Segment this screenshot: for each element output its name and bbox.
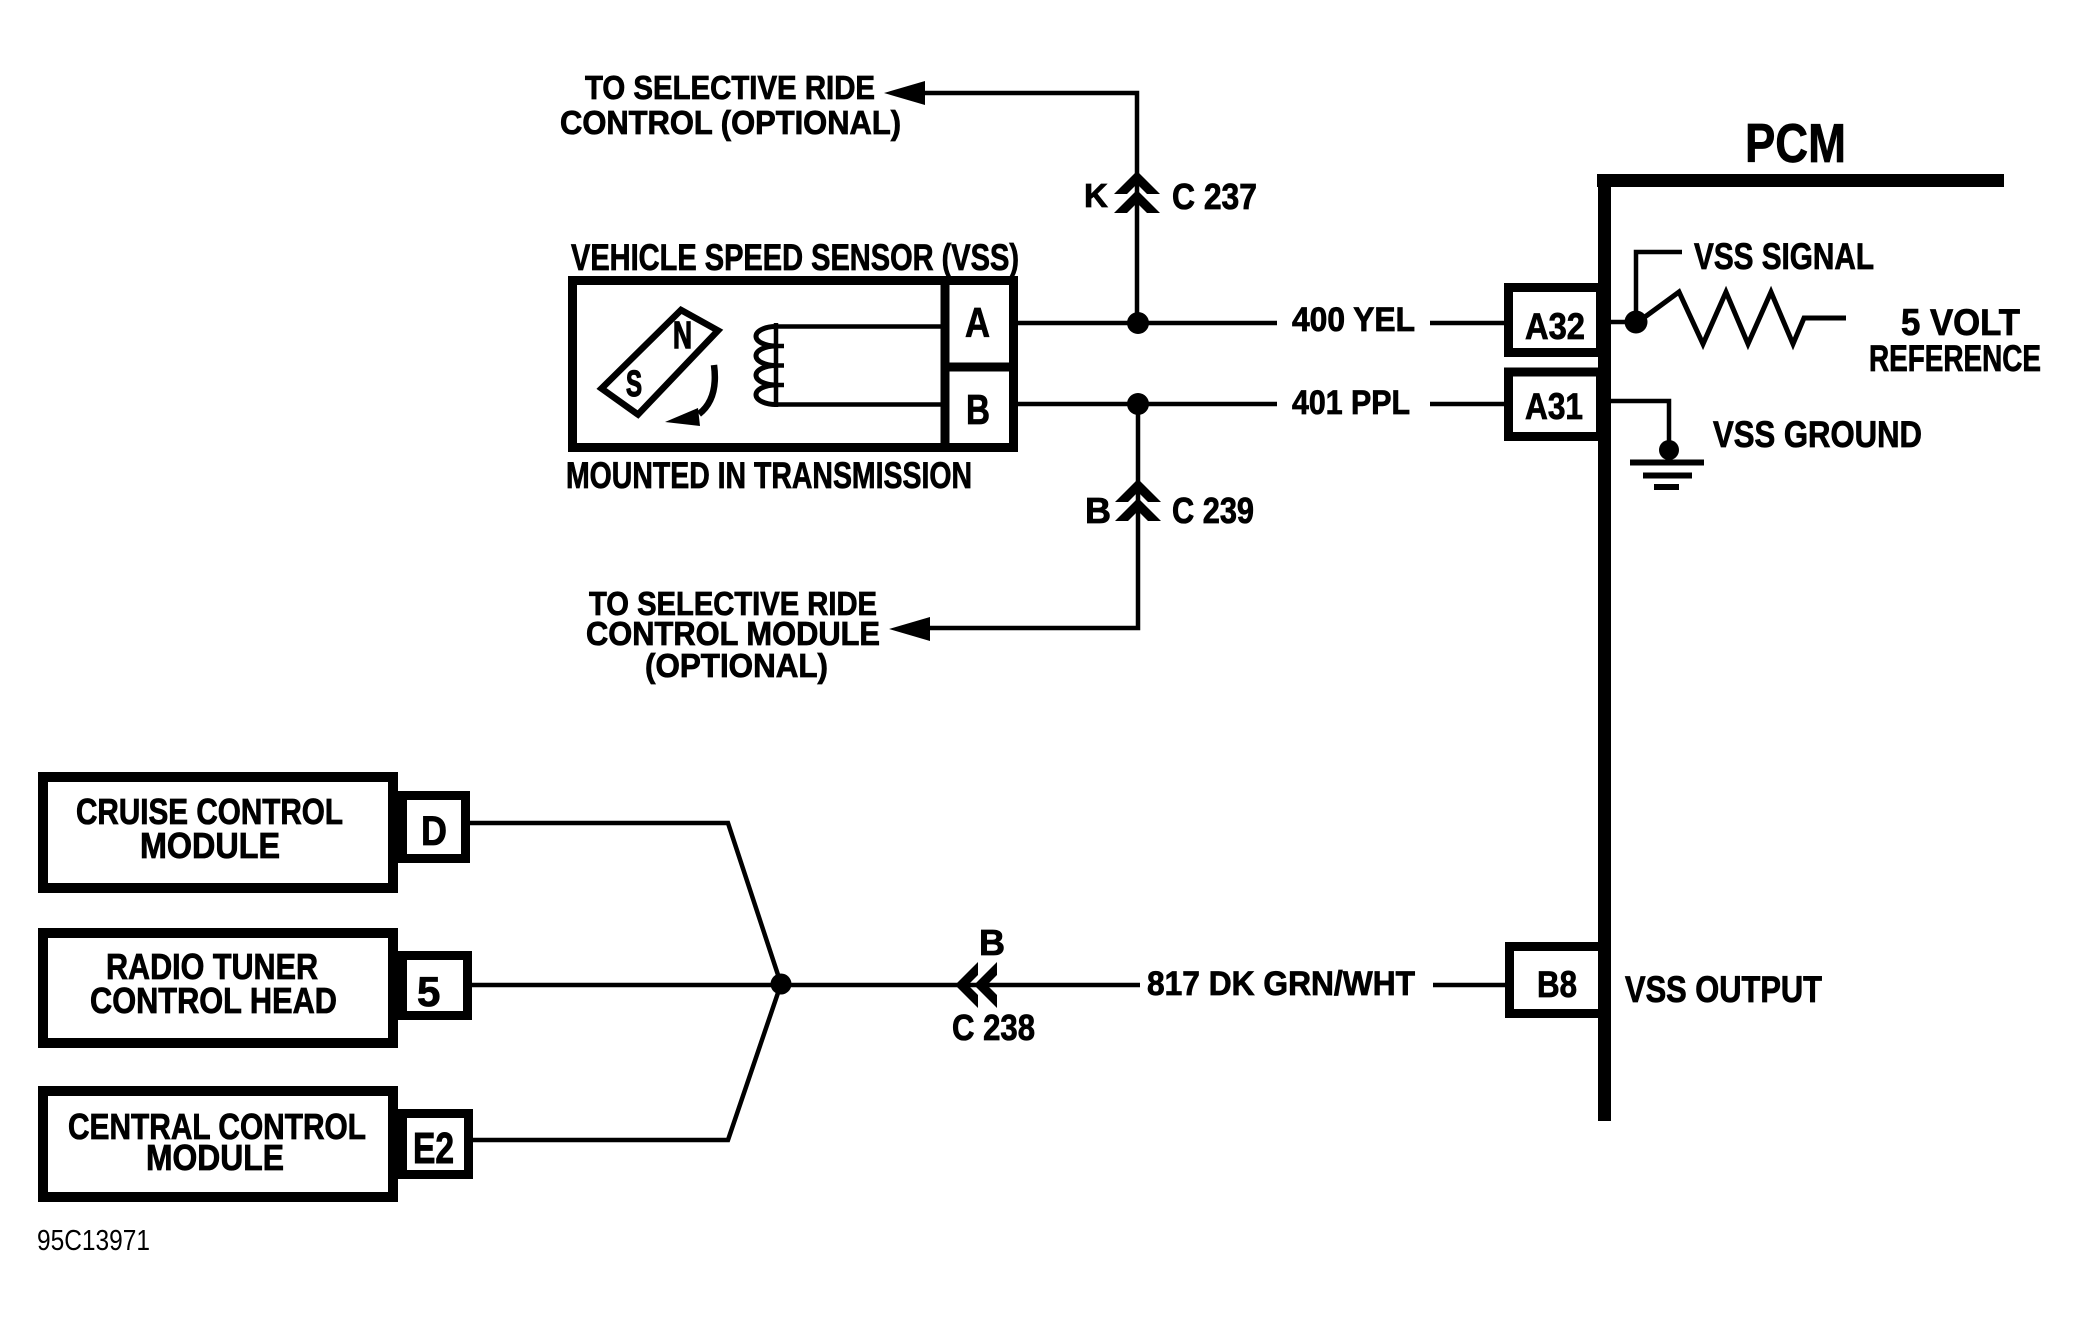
svg-text:C 238: C 238 xyxy=(952,1007,1035,1048)
svg-text:VSS SIGNAL: VSS SIGNAL xyxy=(1694,236,1874,277)
svg-text:S: S xyxy=(626,363,642,404)
svg-text:TO SELECTIVE RIDE: TO SELECTIVE RIDE xyxy=(585,69,875,106)
svg-text:PCM: PCM xyxy=(1745,112,1846,174)
svg-text:5 VOLT: 5 VOLT xyxy=(1901,302,2020,343)
svg-text:401 PPL: 401 PPL xyxy=(1292,384,1410,422)
svg-text:MODULE: MODULE xyxy=(140,825,280,866)
svg-text:C 239: C 239 xyxy=(1172,490,1254,531)
svg-text:(OPTIONAL): (OPTIONAL) xyxy=(645,647,828,684)
svg-text:VEHICLE SPEED SENSOR (VSS): VEHICLE SPEED SENSOR (VSS) xyxy=(571,237,1019,278)
svg-text:N: N xyxy=(673,315,692,357)
svg-text:A32: A32 xyxy=(1525,306,1585,347)
svg-text:VSS GROUND: VSS GROUND xyxy=(1713,414,1922,455)
svg-text:D: D xyxy=(421,807,447,854)
svg-text:REFERENCE: REFERENCE xyxy=(1869,338,2041,379)
svg-text:C 237: C 237 xyxy=(1172,176,1257,217)
svg-text:A: A xyxy=(965,299,990,346)
svg-text:MOUNTED IN TRANSMISSION: MOUNTED IN TRANSMISSION xyxy=(566,455,972,496)
svg-text:VSS OUTPUT: VSS OUTPUT xyxy=(1625,969,1822,1010)
svg-text:95C13971: 95C13971 xyxy=(37,1225,150,1257)
svg-text:E2: E2 xyxy=(413,1124,454,1173)
svg-text:K: K xyxy=(1084,177,1108,214)
svg-text:817 DK GRN/WHT: 817 DK GRN/WHT xyxy=(1147,965,1415,1003)
svg-text:CONTROL HEAD: CONTROL HEAD xyxy=(90,980,337,1021)
svg-text:A31: A31 xyxy=(1525,386,1583,427)
svg-text:B: B xyxy=(966,386,990,433)
svg-text:400 YEL: 400 YEL xyxy=(1292,301,1415,339)
svg-text:CONTROL (OPTIONAL): CONTROL (OPTIONAL) xyxy=(560,104,901,141)
svg-text:B8: B8 xyxy=(1537,964,1577,1005)
svg-text:B: B xyxy=(1085,490,1111,531)
svg-text:MODULE: MODULE xyxy=(146,1137,284,1178)
svg-text:5: 5 xyxy=(417,968,440,1015)
svg-text:B: B xyxy=(979,922,1005,963)
